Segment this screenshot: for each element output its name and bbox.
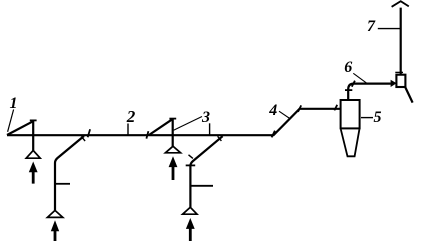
intake nozzle (branch 1) bbox=[47, 210, 62, 217]
svg-text:6: 6 bbox=[344, 59, 352, 76]
svg-text:2: 2 bbox=[126, 107, 136, 126]
joint tick on pipe before riser bbox=[272, 131, 275, 138]
leader tick below label 3 bbox=[209, 123, 211, 135]
joint tick before cyclone inlet bbox=[334, 105, 337, 111]
branch pipe 1 elbow and drop pipe bbox=[55, 136, 84, 210]
main suction pipeline with riser to cyclone bbox=[7, 109, 341, 135]
svg-text:5: 5 bbox=[374, 109, 382, 126]
joint tick on main pipe after branch 1 bbox=[88, 129, 90, 137]
svg-text:4: 4 bbox=[268, 102, 277, 119]
leader line for label 5 bbox=[361, 117, 373, 119]
intake nozzle 1 (bell mouth) bbox=[26, 150, 40, 158]
fan exhaust diagonal bbox=[405, 87, 413, 103]
leader line from label 3 to nozzle assembly 2 bbox=[174, 117, 202, 131]
coupling side line on branch 2 drop pipe bbox=[190, 185, 213, 187]
nozzle assembly 2 diagonal brace bbox=[149, 119, 172, 135]
svg-text:1: 1 bbox=[10, 95, 18, 112]
coupling tick on branch 2 drop pipe bbox=[186, 164, 196, 166]
material flow arrow 2 bbox=[169, 156, 178, 180]
cyclone 5 body (cylinder) bbox=[341, 100, 360, 128]
leader tick for label 2 bbox=[127, 124, 129, 135]
joint tick on pipe at feeder 2 bbox=[146, 131, 148, 138]
svg-text:7: 7 bbox=[367, 18, 376, 35]
branch pipe 2 elbow and drop pipe bbox=[190, 136, 222, 207]
joint tick on branch 2 diagonal bbox=[189, 155, 193, 159]
leader line from label 4 to riser bbox=[279, 111, 291, 119]
fan unit 6 box bbox=[396, 75, 405, 87]
intake nozzle (branch 2) bbox=[183, 207, 197, 214]
material flow arrow 1 bbox=[29, 162, 38, 184]
nozzle assembly 1 diagonal brace bbox=[7, 121, 33, 135]
cyclone 5 cone bbox=[341, 129, 360, 156]
nozzle 1 top tick bbox=[30, 119, 37, 121]
nozzle 2 top tick bbox=[169, 118, 176, 120]
joint tick after elbow bbox=[352, 81, 355, 87]
exhaust arrow chevron bbox=[392, 1, 409, 7]
cyclone outlet elbow pipe to fan bbox=[348, 84, 391, 100]
joint tick on outlet riser below elbow bbox=[345, 89, 352, 91]
leader line from label 1 to pipe inlet bbox=[8, 110, 14, 132]
joint tick at branch 2 junction bbox=[218, 136, 222, 141]
svg-text:3: 3 bbox=[201, 109, 210, 126]
joint tick at top of riser bbox=[298, 105, 301, 111]
nozzle assembly 2 vertical pipe bbox=[172, 119, 174, 146]
coupling side line on branch 1 drop pipe bbox=[55, 183, 70, 185]
exhaust stack pipe bbox=[400, 8, 402, 75]
arrowhead into fan bbox=[391, 80, 397, 87]
leader line from label 6 bbox=[353, 73, 366, 83]
joint tick on branch 1 diagonal bbox=[81, 136, 85, 141]
tick above fan box bbox=[395, 71, 403, 73]
material flow arrow (branch 1) bbox=[51, 220, 59, 241]
nozzle assembly 1 vertical pipe bbox=[32, 121, 34, 151]
intake nozzle 2 (bell mouth) bbox=[165, 146, 180, 153]
material flow arrow (branch 2) bbox=[186, 218, 195, 241]
leader line from label 7 bbox=[378, 28, 401, 30]
